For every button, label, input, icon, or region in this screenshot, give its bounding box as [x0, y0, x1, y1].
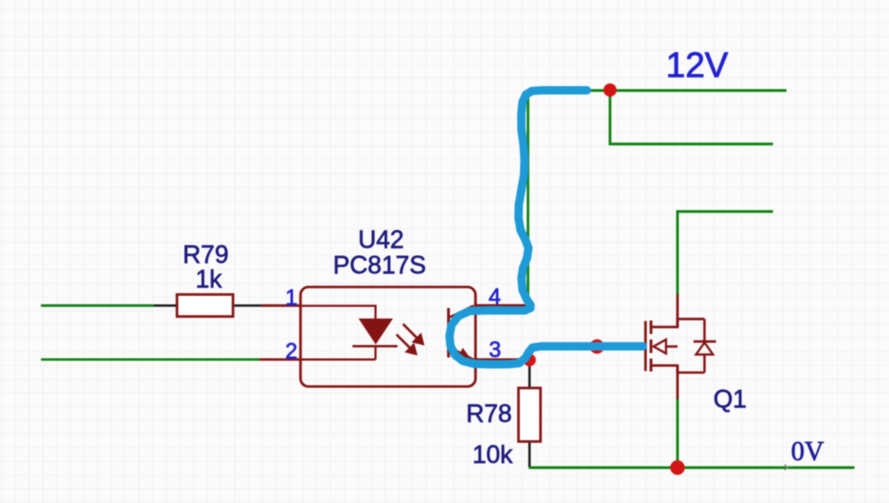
- wire: R79 to pin1 (dark red pin lead): [262, 304, 302, 307]
- svg-text:PC817S: PC817S: [333, 252, 426, 280]
- svg-text:10k: 10k: [472, 441, 513, 469]
- wire: 12V branch down and right (green): [610, 91, 773, 145]
- resistor R78: [519, 388, 541, 442]
- wire: R78 bottom to 0V rail (black): [528, 442, 530, 468]
- junction dot at 12V rail: [603, 83, 616, 96]
- source connect: [651, 366, 705, 373]
- resistor R79: [177, 295, 233, 317]
- drain connect: [651, 319, 705, 327]
- wire: Q1 source to 0V rail (green): [676, 399, 679, 468]
- wire: pin4 lead (dark red): [474, 304, 528, 307]
- wire: left input to R79 (black part): [154, 304, 177, 306]
- svg-text:1k: 1k: [195, 266, 222, 294]
- gate bar: [644, 321, 647, 371]
- wire: left input to R79 (green part): [41, 304, 154, 307]
- wire: pin3 junction to gate net (green, under highlight): [530, 347, 632, 361]
- wire: junction to R78 top (black): [528, 360, 530, 388]
- wire: Q1 drain lead (dark red): [676, 294, 679, 327]
- junction dot on gate wire: [590, 339, 605, 354]
- wire: gate pin lead (dark red): [630, 345, 646, 348]
- svg-text:0V: 0V: [791, 436, 825, 466]
- wire: R79 to pin1 (black part): [233, 304, 262, 306]
- LED emission arrows: [397, 324, 425, 356]
- wire: vertical from 12V rail down to pin4 (green, under highlight): [527, 91, 530, 306]
- svg-text:Q1: Q1: [713, 386, 746, 414]
- wire: 0V bottom rail (green): [529, 466, 855, 469]
- transistor Q2 : MOSFET Q1: [646, 319, 717, 373]
- svg-text:4: 4: [489, 284, 501, 309]
- body diode: [703, 319, 705, 342]
- svg-text:12V: 12V: [666, 46, 729, 85]
- wire: freehand blue highlighter annotation: [450, 90, 644, 364]
- wire: drain stub from right (green): [678, 212, 774, 295]
- body arrow: [666, 345, 678, 347]
- wire: pin2 lead (dark red): [260, 358, 302, 361]
- svg-text:3: 3: [489, 337, 501, 362]
- svg-text:2: 2: [285, 339, 297, 364]
- phototransistor inside U42: [449, 306, 474, 360]
- wire: Q1 source lead (dark red): [676, 366, 679, 400]
- junction dot pin3/R78: [523, 354, 536, 367]
- svg-text:U42: U42: [358, 226, 404, 254]
- wire: pin3 lead (dark red): [474, 358, 524, 361]
- channel segments: [650, 321, 653, 335]
- wire: 12V top rail (green): [528, 89, 787, 92]
- svg-text:R78: R78: [466, 400, 512, 428]
- op-amp U1 : optocoupler U42 body: [301, 287, 476, 387]
- net label anchor tick near 0V: [785, 465, 789, 471]
- svg-text:1: 1: [285, 285, 297, 310]
- junction dot 0V rail: [670, 460, 685, 475]
- wire: lower left input (green): [41, 358, 260, 361]
- LED inside U42: [301, 306, 398, 360]
